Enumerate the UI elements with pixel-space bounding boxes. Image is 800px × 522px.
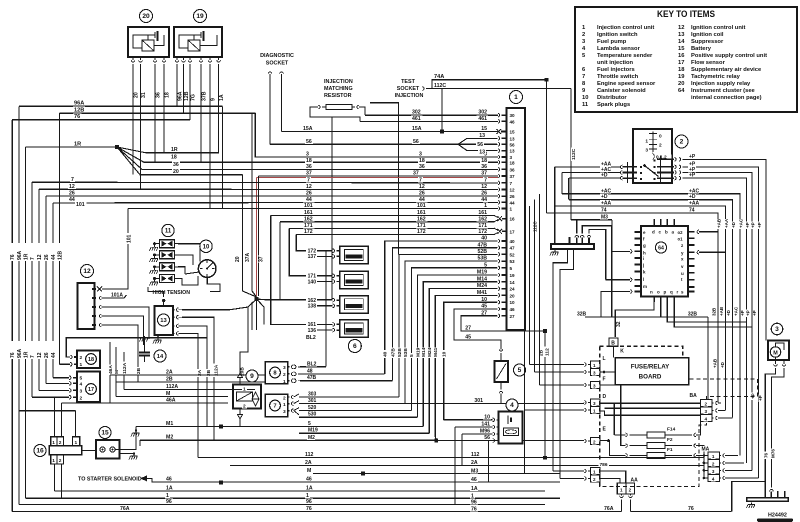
fuel pump designator circle 3 <box>771 323 783 335</box>
svg-text:o1: o1 <box>678 236 684 241</box>
svg-text:3: 3 <box>419 152 422 158</box>
junction square on M3 row <box>361 472 365 476</box>
cluster right pin arcs <box>697 230 699 234</box>
svg-text:52B: 52B <box>397 348 403 357</box>
wire M3 row to 32B region <box>611 220 613 317</box>
svg-text:H24492: H24492 <box>768 513 787 519</box>
svg-text:+D: +D <box>689 194 696 200</box>
svg-text:5: 5 <box>80 376 83 382</box>
svg-text:+D: +D <box>726 309 731 316</box>
svg-text:+AB: +AB <box>717 218 722 228</box>
wire 303 row <box>299 396 399 398</box>
svg-text:47B: 47B <box>307 375 317 381</box>
wire M41 from ECU <box>477 290 488 295</box>
diagnostic socket pins <box>268 72 272 74</box>
wire 12B row <box>60 112 256 114</box>
svg-text:+AA: +AA <box>724 218 729 228</box>
svg-text:2: 2 <box>659 142 662 148</box>
svg-text:1: 1 <box>593 363 596 368</box>
svg-text:20: 20 <box>510 293 516 298</box>
relay 19 tachymetric relay designator <box>194 10 207 23</box>
connector B <box>609 338 618 346</box>
svg-text:11: 11 <box>165 229 172 235</box>
svg-text:Flow sensor: Flow sensor <box>691 60 726 66</box>
svg-text:Distributor: Distributor <box>597 95 627 101</box>
svg-text:Supplementary air device: Supplementary air device <box>691 67 762 73</box>
wire coil pin4 to 112 row <box>182 333 198 457</box>
svg-text:47B: 47B <box>390 348 396 357</box>
svg-text:K: K <box>620 349 624 355</box>
svg-text:15: 15 <box>510 130 516 135</box>
svg-text:BL2: BL2 <box>307 361 317 367</box>
svg-text:q: q <box>670 290 673 295</box>
solenoid valve symbol <box>252 392 259 406</box>
wire 3 from 12B continuation <box>255 113 498 157</box>
svg-text:6: 6 <box>353 343 357 350</box>
wire 76 row to ground bus <box>732 482 766 512</box>
ignition switch 2 box <box>633 129 672 183</box>
wire 74A <box>426 80 547 89</box>
H24492 part number <box>767 512 789 518</box>
wire cluster right o2 to bus <box>699 231 718 233</box>
wire 112 row <box>198 457 704 459</box>
wire battery to 16 <box>82 449 97 451</box>
connector AA pins <box>620 496 624 498</box>
svg-text:17: 17 <box>88 387 94 393</box>
svg-text:1: 1 <box>471 493 474 499</box>
svg-text:M76: M76 <box>771 449 776 458</box>
svg-text:d: d <box>652 230 655 235</box>
wire 1R fan upper to relay pin <box>117 70 219 153</box>
left bus rotated labels lower <box>10 341 15 359</box>
fuel injectors designator circle 6 <box>348 340 361 353</box>
wire 461 <box>360 120 498 122</box>
component 17 pin labels <box>79 375 84 380</box>
board vertical F14 feed <box>613 403 615 435</box>
wire 162 injector feed <box>280 222 333 300</box>
svg-text:37: 37 <box>510 174 516 179</box>
wire +P4 out of switch <box>687 178 747 463</box>
wire 1 row <box>26 497 561 499</box>
svg-text:3: 3 <box>712 469 715 474</box>
svg-text:INJECTION: INJECTION <box>395 93 424 99</box>
svg-text:76A: 76A <box>604 506 614 512</box>
canister solenoid 9 designator <box>246 370 258 382</box>
svg-text:76: 76 <box>10 352 16 358</box>
svg-text:47: 47 <box>510 246 516 251</box>
wire 301 row <box>299 403 584 405</box>
ground bus pin 2 arc <box>770 489 774 491</box>
rotated labels 20 37A 37 bundle <box>235 255 240 263</box>
svg-text:Temperature sender: Temperature sender <box>597 53 653 59</box>
svg-text:112A: 112A <box>214 364 220 376</box>
temp sender top pin <box>499 349 503 351</box>
wire 301 to D pin upper <box>583 402 585 405</box>
svg-text:Ignition coil: Ignition coil <box>691 32 724 38</box>
right bus rotated labels upper <box>717 219 722 229</box>
wires MA to right bus <box>729 455 738 457</box>
svg-text:112: 112 <box>545 348 551 356</box>
relay 19 pin 9 drop <box>209 70 211 209</box>
wire 161 injector feed <box>271 215 333 324</box>
to starter solenoid label <box>77 476 142 482</box>
svg-text:+AA: +AA <box>689 200 700 206</box>
svg-text:M41: M41 <box>433 347 439 357</box>
svg-text:162: 162 <box>304 216 313 222</box>
spark plug 3 <box>153 265 156 268</box>
svg-text:37: 37 <box>259 256 265 262</box>
svg-text:2A: 2A <box>305 460 312 466</box>
svg-text:112: 112 <box>305 452 313 458</box>
svg-text:D: D <box>603 394 607 400</box>
svg-text:1: 1 <box>52 458 55 464</box>
svg-text:3: 3 <box>283 365 286 371</box>
injection matching resistor label <box>323 78 355 84</box>
svg-text:1: 1 <box>243 387 246 393</box>
wire 5 from ECU <box>483 262 488 267</box>
svg-text:1: 1 <box>593 470 596 475</box>
svg-text:461: 461 <box>478 116 487 122</box>
fuel pump wire left pin to ground bus <box>765 368 775 498</box>
svg-text:52: 52 <box>510 252 516 257</box>
wire 96A continuation down to 101 row <box>222 106 224 208</box>
svg-text:15A: 15A <box>412 126 422 132</box>
svg-text:+P: +P <box>740 310 745 316</box>
svg-text:162: 162 <box>417 216 426 222</box>
temp sender bottom pin <box>499 392 503 394</box>
ignition switch left pins <box>621 165 623 169</box>
svg-text:13: 13 <box>510 149 516 154</box>
wire 1A row <box>54 490 545 492</box>
svg-text:unit injection: unit injection <box>597 60 634 66</box>
battery 15 box <box>96 440 120 459</box>
wire 136 injector return <box>317 329 333 331</box>
wire 37 red overlay <box>257 177 498 179</box>
svg-text:9: 9 <box>250 373 254 380</box>
svg-text:r: r <box>677 290 679 295</box>
positive supply control unit 16 bar <box>49 446 82 455</box>
svg-text:12: 12 <box>481 184 487 190</box>
long vertical wire x398 from resistor <box>370 103 399 255</box>
wire M3 bottom row <box>313 473 524 475</box>
cluster left pin arcs <box>630 250 632 254</box>
wire M19 row <box>299 432 429 434</box>
diagnostic socket wire to 56 <box>269 74 271 144</box>
wire 101A pin2 stub <box>104 295 127 298</box>
svg-text:Positive supply control unit: Positive supply control unit <box>691 53 767 59</box>
svg-text:18: 18 <box>171 155 177 161</box>
svg-text:461: 461 <box>412 116 421 122</box>
svg-text:3: 3 <box>775 326 779 333</box>
svg-text:24: 24 <box>510 287 516 292</box>
svg-text:Engine speed sensor: Engine speed sensor <box>597 81 656 87</box>
svg-text:+P: +P <box>751 222 756 228</box>
svg-text:96A: 96A <box>17 348 23 358</box>
svg-text:5: 5 <box>308 421 311 427</box>
wire M96 row <box>462 433 493 435</box>
svg-text:MATCHING: MATCHING <box>324 86 353 92</box>
svg-text:40: 40 <box>510 239 516 244</box>
svg-text:KEY TO ITEMS: KEY TO ITEMS <box>657 9 715 19</box>
svg-text:Injection supply relay: Injection supply relay <box>691 81 751 87</box>
wire 45 from ECU to temperature sender <box>480 303 488 308</box>
svg-text:19: 19 <box>510 273 516 278</box>
wire 12 <box>39 188 498 190</box>
svg-text:Canister solenoid: Canister solenoid <box>597 88 646 94</box>
svg-text:1: 1 <box>306 493 309 499</box>
wire high tension <box>148 287 164 297</box>
svg-text:3: 3 <box>705 409 708 414</box>
svg-text:101: 101 <box>304 203 313 209</box>
wire BL2 label <box>305 334 316 339</box>
wire +AA row <box>555 206 726 410</box>
svg-text:F2: F2 <box>667 437 673 443</box>
junction square wire 74A <box>545 78 549 82</box>
V leg M41 into junction <box>435 437 436 441</box>
svg-text:12: 12 <box>83 268 91 275</box>
svg-text:161: 161 <box>304 210 313 216</box>
ray from X to injector return bus <box>257 299 265 324</box>
wire coil pin1 to X ray <box>182 307 248 310</box>
junction square on 15A <box>440 130 444 134</box>
svg-text:1: 1 <box>283 379 286 385</box>
suppressor designator circle 14 <box>154 350 166 362</box>
fuel pump motor box <box>768 341 789 361</box>
svg-text:101: 101 <box>76 202 85 208</box>
wire from 12 pin1 to 101 vertical <box>102 288 128 290</box>
svg-text:+P: +P <box>758 395 763 401</box>
fuse relay board relay K box <box>615 358 689 385</box>
svg-text:+P: +P <box>745 222 750 228</box>
X junction square <box>254 297 258 301</box>
engine speed sensor 8 box <box>265 362 287 384</box>
board connector L <box>591 361 601 368</box>
wire cluster bottom pin3 <box>667 302 746 322</box>
spark plug 2 <box>153 253 156 256</box>
rotated labels 2B 112 mid verticals <box>533 220 538 233</box>
fuel pump wire right pin to ground bus <box>771 368 784 488</box>
svg-text:SOCKET: SOCKET <box>397 86 420 92</box>
L junction dot <box>603 371 606 374</box>
wire 26 <box>46 195 498 197</box>
wire +D into switch <box>569 177 621 179</box>
svg-text:46: 46 <box>510 119 516 124</box>
starter solenoid arrow <box>140 475 147 481</box>
wire 12B relay pin drop <box>183 70 185 113</box>
wire 16 top pin1 to M row <box>53 397 55 437</box>
wire 16 single pin up <box>75 411 77 437</box>
svg-text:96A: 96A <box>74 101 84 107</box>
wire 37 black <box>258 175 498 177</box>
svg-text:136: 136 <box>308 328 317 334</box>
svg-text:162: 162 <box>478 216 487 222</box>
svg-text:u: u <box>681 271 684 276</box>
wire 12 pin5 down right to 2B row <box>104 325 138 382</box>
wire 96A relay pin drop <box>176 70 178 106</box>
svg-text:1: 1 <box>283 402 286 408</box>
junction square M2 56 <box>435 439 439 443</box>
junction bar <box>551 244 594 249</box>
svg-text:12B: 12B <box>58 250 64 260</box>
second stub below X <box>251 302 253 330</box>
suppressor 14 capacitor <box>144 345 146 352</box>
svg-text:18: 18 <box>510 160 516 165</box>
svg-text:p: p <box>664 290 667 295</box>
svg-text:Fuel injectors: Fuel injectors <box>597 67 635 73</box>
wire 32 from cluster to connector B <box>615 302 654 337</box>
wire 40 from ECU <box>480 235 488 240</box>
riser 46A <box>109 342 111 403</box>
ignition switch rotary contact <box>643 164 646 167</box>
svg-text:32B: 32B <box>688 312 698 318</box>
svg-text:M: M <box>307 468 311 474</box>
wire M96 vertical <box>461 434 463 466</box>
svg-text:161: 161 <box>478 210 487 216</box>
wire test socket drop to 15A <box>441 89 443 132</box>
svg-text:13: 13 <box>479 133 485 139</box>
ignition switch left connector bar <box>627 162 629 183</box>
cluster right pin stubs <box>688 231 695 233</box>
svg-text:10: 10 <box>582 95 588 101</box>
wire F to K box <box>600 384 615 386</box>
right bus rotated labels lower <box>712 307 717 317</box>
instrument cluster designator circle 64 <box>655 242 666 253</box>
svg-text:171: 171 <box>304 223 313 229</box>
svg-text:1A: 1A <box>219 94 225 101</box>
wire 162 <box>280 221 494 223</box>
fuse F2 <box>626 444 628 448</box>
wire 137 injector return <box>317 255 333 257</box>
battery terminal wire to ground 2 <box>119 453 134 455</box>
wire 140 injector return <box>317 281 333 283</box>
svg-text:137: 137 <box>308 254 317 260</box>
svg-text:1: 1 <box>593 409 596 414</box>
svg-text:26: 26 <box>44 254 50 260</box>
svg-text:7: 7 <box>510 181 513 186</box>
wire M2 row label <box>307 435 315 440</box>
svg-text:46A: 46A <box>166 398 176 404</box>
wire 74A vertical down to 74 row <box>546 80 548 213</box>
svg-text:31: 31 <box>141 92 147 98</box>
wire cluster left pin h <box>612 250 630 252</box>
svg-text:o: o <box>657 290 660 295</box>
svg-text:+D: +D <box>731 221 736 228</box>
wire 2A 2B 112A M 46A short rows <box>110 374 265 376</box>
injection control unit designator circle 1 <box>510 91 523 104</box>
svg-text:64: 64 <box>658 246 664 252</box>
svg-text:32B: 32B <box>577 312 587 318</box>
svg-text:56: 56 <box>484 435 490 441</box>
rotated wire labels column x108-136 <box>108 364 113 375</box>
svg-text:F1: F1 <box>667 447 673 453</box>
svg-text:7: 7 <box>419 177 422 183</box>
svg-text:16: 16 <box>36 448 44 455</box>
svg-text:2: 2 <box>243 404 246 410</box>
left bus rotated labels <box>10 243 15 261</box>
svg-text:M2: M2 <box>308 435 315 441</box>
ignition switch right pins <box>657 158 674 160</box>
supplementary air device 18 box <box>77 351 100 369</box>
svg-text:3: 3 <box>80 389 83 395</box>
svg-text:46: 46 <box>471 477 477 483</box>
wire 5 row label <box>307 421 312 426</box>
wire cluster left pin n <box>601 292 630 318</box>
svg-text:2: 2 <box>80 355 83 361</box>
wire 56 <box>270 143 497 145</box>
svg-text:172: 172 <box>304 229 313 235</box>
svg-text:56: 56 <box>306 139 312 145</box>
wire 7 <box>32 181 498 184</box>
wire to 18 pin2 <box>66 338 207 357</box>
svg-text:112C: 112C <box>434 83 446 89</box>
svg-text:36: 36 <box>481 164 487 170</box>
wire M14 from ECU <box>477 276 488 281</box>
ground bus bar <box>747 498 789 502</box>
svg-text:26: 26 <box>510 194 516 199</box>
svg-text:20: 20 <box>142 13 150 20</box>
wire 171 <box>289 227 494 229</box>
svg-text:37B: 37B <box>202 91 208 101</box>
svg-text:96A: 96A <box>17 250 23 260</box>
wire 32B from cluster <box>660 302 662 317</box>
wire 141 vertical <box>454 427 456 505</box>
svg-text:F14: F14 <box>667 426 676 432</box>
wire 53B from ECU <box>477 255 488 260</box>
component 18 pins <box>70 355 72 359</box>
wire M24 from ECU <box>477 283 488 288</box>
solenoid coil symbol <box>237 392 253 401</box>
ignition switch designator circle 2 <box>675 135 688 148</box>
svg-text:301: 301 <box>308 398 317 404</box>
svg-text:2: 2 <box>680 139 684 146</box>
svg-text:101A: 101A <box>111 293 123 299</box>
resistor wire to 302 <box>359 107 365 115</box>
wire to L3 from +D vertical <box>535 371 585 373</box>
svg-text:74: 74 <box>601 208 607 214</box>
svg-text:11: 11 <box>582 102 589 108</box>
svg-text:101: 101 <box>417 203 426 209</box>
vertical +D to L3 <box>534 200 536 372</box>
wire 171 injector feed <box>289 228 333 275</box>
svg-text:+D: +D <box>720 361 725 368</box>
junction square wire 27 <box>543 329 547 333</box>
ECU pin connector arcs and pin numbers <box>498 113 500 117</box>
svg-text:16: 16 <box>510 217 516 222</box>
svg-text:14: 14 <box>510 280 516 285</box>
svg-text:16: 16 <box>678 53 685 59</box>
lambda sensor pins <box>493 418 495 422</box>
fuse F2 left vertical to K box <box>621 385 626 446</box>
svg-text:7: 7 <box>484 177 487 183</box>
solenoid pin labels <box>242 386 247 391</box>
fuse F14 right vertical to BA row <box>696 416 701 435</box>
svg-text:44: 44 <box>51 352 57 358</box>
fuse relay board dashed outline <box>600 346 758 486</box>
svg-text:3: 3 <box>645 148 648 154</box>
wire 12 pin4 down right <box>104 316 144 345</box>
rotated wire labels column x198-214 <box>197 369 202 377</box>
wire 138 injector return <box>317 305 333 307</box>
wire to L1 from +AA vertical <box>530 364 585 366</box>
svg-text:Tachymetric relay: Tachymetric relay <box>691 74 741 80</box>
wire lambda region drop to 46 row <box>488 441 490 483</box>
svg-text:44: 44 <box>69 197 75 203</box>
board row D2 to BA4 <box>600 411 701 415</box>
svg-text:301: 301 <box>474 398 483 404</box>
svg-text:10: 10 <box>510 300 516 305</box>
wire 52B from ECU <box>477 249 488 254</box>
connector MA blocks <box>708 452 720 459</box>
